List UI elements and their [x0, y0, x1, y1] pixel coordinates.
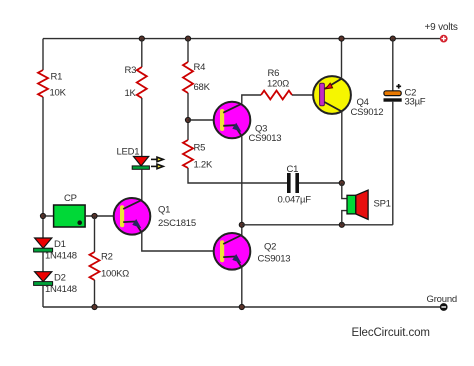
svg-text:CS9013: CS9013 — [258, 254, 291, 265]
probe CP — [54, 193, 86, 227]
svg-text:R4: R4 — [194, 62, 206, 73]
svg-text:33µF: 33µF — [405, 97, 426, 108]
node junction Q2 collector speaker return — [239, 222, 244, 227]
wire R5 bottom to C1 — [188, 168, 287, 183]
wire R2 top — [94, 216, 96, 252]
capacitor C1 — [278, 164, 312, 206]
node junction bottom rail Q2 — [239, 304, 244, 309]
svg-text:Ground: Ground — [427, 294, 458, 305]
wire Q2 emitter down — [241, 268, 243, 307]
wire Q1 emitter to Q2 base — [142, 233, 220, 251]
svg-text:R2: R2 — [101, 252, 113, 263]
svg-text:1.2K: 1.2K — [194, 160, 213, 171]
svg-text:CS9013: CS9013 — [249, 133, 282, 144]
svg-text:R5: R5 — [194, 143, 206, 154]
svg-text:0.047µF: 0.047µF — [278, 195, 312, 206]
node junction top rail R3 — [139, 36, 144, 41]
node junction top rail C2 — [390, 36, 395, 41]
svg-text:LED1: LED1 — [117, 147, 140, 158]
wire LED1 to Q1 — [141, 169, 143, 200]
svg-text:10K: 10K — [50, 88, 67, 99]
wire left rail bottom segment — [42, 285, 44, 307]
speaker SP1 — [342, 183, 391, 225]
svg-text:2SC1815: 2SC1815 — [158, 218, 196, 229]
wire Q3 base — [188, 119, 220, 121]
wire C1 to speaker node — [299, 182, 342, 184]
svg-text:+9 volts: +9 volts — [425, 22, 458, 33]
svg-text:SP1: SP1 — [374, 199, 391, 210]
svg-text:1N4148: 1N4148 — [45, 251, 77, 262]
svg-text:120Ω: 120Ω — [267, 78, 289, 89]
node +9V terminal — [425, 22, 458, 42]
wire C2 bottom — [392, 102, 394, 225]
svg-text:ElecCircuit.com: ElecCircuit.com — [352, 327, 430, 339]
resistor R1 — [38, 70, 67, 99]
wire Q4 emitter to top rail — [341, 39, 343, 79]
svg-text:1N4148: 1N4148 — [45, 284, 77, 295]
svg-text:D1: D1 — [54, 239, 66, 250]
svg-text:Q1: Q1 — [158, 205, 170, 216]
wire R3 to LED1 — [141, 98, 143, 157]
svg-text:R3: R3 — [125, 65, 137, 76]
resistor R6 — [261, 68, 292, 99]
svg-text:CP: CP — [64, 193, 77, 204]
wire Q4 collector down — [341, 112, 343, 184]
wire R4 top — [187, 39, 189, 62]
wire R2 bottom — [94, 280, 96, 307]
wire between D1 D2 — [42, 252, 44, 272]
transistor Q3 — [214, 102, 282, 144]
node junction R4 R5 Q3 base — [185, 117, 190, 122]
node junction left rail CP — [40, 213, 45, 218]
diode D2 — [34, 272, 77, 295]
wire R4 to node — [187, 93, 189, 140]
wire Q3 emitter down to Q2 collector — [241, 136, 243, 235]
node junction bottom rail R2 — [92, 304, 97, 309]
node junction top rail R4 — [185, 36, 190, 41]
resistor R5 — [183, 140, 213, 171]
wire CP left — [43, 215, 54, 217]
diode D1 — [34, 238, 77, 262]
wire Q3 collector up — [242, 95, 261, 104]
svg-text:1K: 1K — [125, 88, 137, 99]
svg-text:D2: D2 — [54, 273, 66, 284]
svg-text:Q2: Q2 — [264, 242, 276, 253]
transistor Q2 — [214, 233, 291, 270]
capacitor C2 — [384, 84, 426, 108]
wire C2 top — [392, 39, 394, 91]
node junction speaker bottom — [339, 222, 344, 227]
wire bottom ground rail — [43, 306, 440, 308]
wire left rail mid segment — [42, 97, 44, 238]
resistor R2 — [90, 252, 130, 281]
wire speaker return rail — [242, 224, 393, 226]
svg-text:CS9012: CS9012 — [351, 107, 384, 118]
svg-text:68K: 68K — [194, 82, 211, 93]
svg-text:100KΩ: 100KΩ — [101, 269, 129, 280]
wire R3 top — [141, 39, 143, 67]
node junction R2 Q1 base — [92, 213, 97, 218]
transistor Q1 — [114, 198, 196, 235]
node junction top rail Q4 — [339, 36, 344, 41]
wire CP to Q1 base — [85, 215, 120, 217]
resistor R3 — [125, 65, 147, 99]
wire R6 to Q4 base — [292, 94, 320, 96]
wire top +9V rail — [43, 38, 440, 40]
LED LED1 — [117, 147, 164, 170]
transistor Q4 — [313, 76, 383, 118]
wire left rail top segment — [42, 39, 44, 70]
node junction C1 Q4 speaker — [339, 180, 344, 185]
node ground terminal — [427, 294, 458, 311]
svg-text:R1: R1 — [51, 72, 63, 83]
resistor R4 — [183, 62, 211, 93]
